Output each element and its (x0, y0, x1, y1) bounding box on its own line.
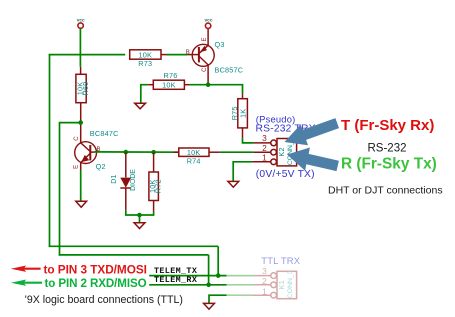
svg-text:Q2: Q2 (96, 162, 106, 171)
junction R72 (151, 150, 156, 155)
svg-text:(0V/+5V TX): (0V/+5V TX) (256, 169, 315, 180)
wire R74 to K2 pin 2 (220, 151, 254, 153)
svg-text:E: E (74, 165, 80, 169)
svg-text:D1: D1 (111, 174, 118, 183)
junction ground bottom (137, 213, 142, 218)
svg-text:TELEM_RX: TELEM_RX (154, 275, 198, 285)
wire left vertical A (49, 54, 51, 247)
wire TELEM_RX (149, 284, 226, 286)
transistor Q2 BC847C (74, 123, 119, 172)
svg-text:3: 3 (262, 266, 267, 276)
wire R75 to K2 pin 3 (243, 138, 254, 143)
svg-text:RS-232: RS-232 (368, 142, 407, 154)
svg-text:R76: R76 (164, 71, 178, 80)
svg-text:C: C (202, 67, 208, 72)
svg-text:10K: 10K (162, 81, 176, 90)
svg-text:10K: 10K (139, 50, 153, 59)
wire bottom horizontal A (49, 245, 218, 247)
wire diode R72 bottoms (126, 210, 154, 215)
ground G1 (135, 103, 146, 109)
power VCC2 (204, 19, 212, 29)
svg-text:K2: K2 (277, 147, 286, 156)
arrow red to PIN 3 (11, 266, 41, 272)
wire vertical to TELEM_RX (208, 255, 210, 285)
svg-text:DIODE: DIODE (130, 169, 137, 191)
svg-text:B: B (186, 50, 190, 56)
svg-text:to PIN 3 TXD/MOSI: to PIN 3 TXD/MOSI (44, 262, 147, 276)
ground G4 (228, 181, 239, 187)
svg-text:to PIN 2 RXD/MISO: to PIN 2 RXD/MISO (45, 277, 147, 290)
svg-text:2: 2 (262, 276, 267, 286)
wire R76 to node and R75 (190, 85, 243, 95)
diode D1 (111, 152, 137, 210)
resistor R69 (75, 74, 90, 122)
wire B horizontal to RX net (60, 122, 81, 124)
svg-text:TTL TRX: TTL TRX (261, 255, 300, 266)
svg-text:R69: R69 (81, 82, 90, 96)
junction R69 Q2 collector (78, 120, 83, 125)
svg-text:E: E (202, 37, 208, 41)
connector K1 TTL faded (227, 266, 297, 299)
svg-text:R74: R74 (187, 157, 201, 166)
svg-text:CONN_3: CONN_3 (287, 270, 294, 298)
wire top horizontal TX net (49, 54, 125, 56)
svg-text:BC847C: BC847C (90, 129, 119, 138)
power VCC1 (77, 19, 85, 29)
wire B bottom horizontal (59, 254, 209, 256)
ground G5 (204, 303, 215, 309)
junction TELEM_RX (206, 283, 211, 288)
wire vertical to TELEM_TX (217, 246, 219, 275)
junction node collector Q3 (206, 82, 211, 87)
svg-text:1K: 1K (238, 109, 247, 118)
resistor R74 (174, 148, 220, 166)
resistor R73 (130, 50, 167, 68)
svg-text:'9X logic board connections (T: '9X logic board connections (TTL) (25, 294, 183, 306)
svg-text:1: 1 (262, 286, 267, 296)
transistor Q3 BC857C (186, 29, 243, 85)
svg-text:R72: R72 (154, 179, 163, 193)
wire VCC1 to R69 (79, 28, 81, 66)
wire TELEM_TX (149, 275, 226, 277)
wire Q2 emitter to ground (80, 170, 82, 201)
arrow to pin 3 (285, 118, 340, 145)
arrow to pin 2 (287, 148, 339, 172)
svg-text:R73: R73 (138, 59, 152, 68)
connector K2 (252, 133, 296, 166)
junction diode (124, 150, 129, 155)
arrow green to PIN 2 (11, 280, 42, 286)
ground G3 (134, 223, 145, 229)
svg-text:R (Fr-Sky Tx): R (Fr-Sky Tx) (341, 155, 437, 172)
svg-text:C: C (74, 136, 80, 141)
wire Q2 base row (95, 151, 179, 153)
svg-text:T (Fr-Sky Rx): T (Fr-Sky Rx) (341, 117, 434, 134)
junction TELEM_TX (216, 273, 221, 278)
wire R73 to Q3 base (167, 54, 188, 56)
wire to ground G3 (139, 215, 141, 223)
wire ground to K1 pin 1 (209, 295, 227, 303)
resistor R72 (148, 152, 162, 212)
svg-text:DHT or DJT connections: DHT or DJT connections (328, 185, 443, 197)
svg-text:Q3: Q3 (215, 40, 225, 49)
wire B vertical (59, 122, 61, 256)
svg-text:BC857C: BC857C (215, 66, 244, 75)
wire R76 to ground (141, 85, 148, 104)
svg-text:K1: K1 (277, 280, 286, 289)
resistor R75 (230, 94, 247, 138)
resistor R76 (148, 71, 190, 89)
svg-text:1: 1 (262, 152, 267, 162)
ground G2 (76, 201, 87, 207)
wire K2 pin 1 to ground (233, 162, 252, 182)
